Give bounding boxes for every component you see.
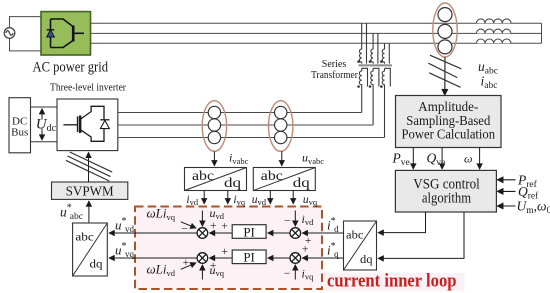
inductor L3 on phase C: [477, 39, 511, 43]
svg-text:AC power grid: AC power grid: [33, 60, 109, 76]
series transformer T1 secondary winding: [359, 68, 367, 112]
abc/dq transform block 1: [185, 168, 247, 191]
wire P_ref input: [497, 179, 515, 181]
svg-text:abc: abc: [261, 169, 283, 184]
svg-text:Um,ω0: Um,ω0: [517, 199, 550, 217]
transformer core bar: [359, 64, 393, 66]
wire DC bus to inverter bottom: [31, 141, 58, 143]
T1 secondary polarity dot: [357, 85, 360, 88]
wire u_vd drop into box: [269, 191, 271, 204]
SVPWM block: [52, 182, 128, 199]
AC source V1: [4, 28, 15, 39]
summer D: [290, 253, 301, 264]
wire dq/abc block4 to SVPWM: [88, 201, 90, 223]
inverter output line phase b: [118, 124, 373, 126]
wire block3 to summer D (i*_q): [302, 257, 343, 259]
gate slash 1: [70, 152, 113, 172]
inverter output line phase a: [118, 112, 362, 114]
svg-text:−: −: [284, 268, 291, 280]
voltage sensor ellipse 2: [269, 101, 293, 152]
wire SVPWM to inverter: [88, 153, 90, 183]
wire PI2 to summer B: [210, 257, 233, 259]
grid sensor coil b: [438, 24, 452, 38]
wire summer A to block4 (u*_vd): [109, 232, 197, 234]
T2 primary polarity dot: [369, 60, 372, 63]
svg-text:+: +: [221, 221, 228, 233]
svg-text:+: +: [302, 243, 309, 255]
svg-text:algorithm: algorithm: [422, 190, 471, 206]
grid measurement sensor ellipse: [433, 3, 457, 57]
wire u_vd feedforward to summer A: [201, 211, 203, 227]
svg-text:−: −: [284, 215, 291, 227]
series transformer T2 primary winding: [371, 33, 378, 63]
current inner loop dashed box: [135, 207, 322, 290]
svg-text:Three-level inverter: Three-level inverter: [50, 82, 126, 93]
bus line phase A: [91, 22, 542, 24]
svg-text:ω: ω: [464, 152, 472, 166]
wire summer C to PI1: [268, 232, 290, 234]
wire DC bus to inverter top: [31, 106, 58, 108]
tap slash 1: [430, 55, 461, 69]
svg-text:Sampling-Based: Sampling-Based: [406, 113, 490, 128]
wire omegaLivd to summer B: [181, 263, 196, 269]
wire i_vd feedback into summer C: [294, 211, 296, 227]
svg-text:dq: dq: [90, 257, 103, 271]
wire i_vd drop into box: [203, 191, 205, 204]
svg-text:+: +: [210, 220, 217, 232]
measurement tap wire to power calculation: [444, 57, 446, 95]
wire summer B to block4 (u*_vq): [109, 257, 197, 259]
svg-text:SVPWM: SVPWM: [66, 185, 115, 200]
wire VSG to block3 q-axis: [378, 212, 464, 258]
svg-text:−: −: [181, 224, 188, 236]
dq/abc transform block 4: [73, 223, 108, 276]
svg-text:abc: abc: [75, 229, 93, 243]
grid sensor coil a: [438, 8, 452, 22]
wire i_vq feedback into summer D: [294, 265, 296, 280]
wire PI1 to summer A: [210, 232, 233, 234]
wire Qve to VSG: [441, 148, 443, 169]
svg-text:Bus: Bus: [11, 127, 28, 139]
U_dc measurement double arrow: [41, 109, 43, 120]
VSG control algorithm block: [395, 170, 496, 212]
sensor1 coil b: [208, 119, 220, 131]
wire VSG to block3 d-axis: [378, 212, 425, 233]
grid converter internal circuit: [51, 19, 85, 48]
wire Um omega0 input: [497, 205, 515, 207]
T1 primary polarity dot: [357, 60, 360, 63]
sensor2 coil a: [275, 106, 287, 118]
sensor2 coil c: [275, 131, 287, 143]
inductor L1 on phase A: [477, 19, 511, 23]
svg-text:PI: PI: [243, 224, 255, 239]
bus line phase B: [91, 32, 542, 34]
summer B: [197, 253, 208, 264]
abc/dq transform block 2: [253, 168, 315, 191]
gate slash 2: [68, 156, 111, 177]
sensor1 coil a: [208, 106, 220, 118]
bus line phase C: [91, 42, 542, 44]
dq/abc transform block 3: [344, 221, 377, 270]
PI controller 1: [232, 224, 266, 239]
wire sensor1 to abc/dq block1: [213, 151, 215, 165]
svg-text:PI: PI: [243, 250, 255, 265]
svg-text:abc: abc: [192, 169, 214, 184]
series transformer T3 primary winding: [382, 43, 389, 63]
current sensor ellipse 1: [202, 101, 226, 152]
series transformer T3 secondary winding: [382, 68, 390, 137]
wire u_vq drop into box: [292, 191, 294, 204]
wire u_vq feedforward to summer B: [201, 265, 203, 280]
three-level inverter block: [57, 99, 118, 151]
summer C: [290, 228, 301, 239]
wire AC source to grid converter bottom: [10, 38, 42, 51]
wire summer D to PI2: [268, 257, 290, 259]
svg-text:Series: Series: [322, 59, 347, 70]
svg-text:dq: dq: [224, 176, 241, 191]
svg-text:Amplitude-: Amplitude-: [418, 99, 478, 114]
svg-text:Transformer: Transformer: [311, 70, 358, 81]
inverter freewheel diode: [100, 119, 109, 121]
series transformer T1 primary winding: [360, 23, 367, 63]
wire Pve to VSG: [412, 148, 414, 169]
svg-text:dq: dq: [360, 252, 373, 266]
T3 secondary polarity dot: [380, 85, 383, 88]
diode D1 (blue) inside grid converter: [47, 30, 55, 37]
svg-text:Power Calculation: Power Calculation: [402, 127, 496, 142]
summer A: [197, 228, 208, 239]
inverter IGBT symbol: [63, 106, 104, 141]
wire block3 to summer C (i*_d): [302, 232, 343, 234]
pink halo behind caption: [324, 273, 465, 291]
svg-text:+: +: [222, 246, 229, 258]
svg-text:current inner loop: current inner loop: [327, 270, 457, 291]
T2 secondary polarity dot: [369, 85, 372, 88]
wire sensor2 to abc/dq block2: [281, 151, 283, 165]
tap slash 3: [429, 73, 460, 88]
svg-text:dq: dq: [293, 176, 310, 191]
wire Q_ref input: [497, 190, 515, 192]
wire AC source to grid converter top: [10, 17, 42, 28]
Amplitude-Sampling-Based Power Calculation block: [396, 96, 502, 148]
wire omegaLivq to summer A: [181, 222, 196, 228]
PI controller 2: [232, 250, 266, 265]
tap slash 2: [428, 63, 457, 77]
sensor2 coil b: [275, 119, 287, 131]
inverter output line phase c: [118, 137, 385, 139]
gate slash 3: [66, 160, 109, 181]
grid-side converter block (green): [41, 12, 91, 55]
sensor1 coil c: [208, 131, 220, 143]
T3 primary polarity dot: [380, 60, 383, 63]
wire omega to VSG: [479, 148, 481, 169]
inductor L2 on phase B: [477, 29, 511, 33]
wire i_vq drop into box: [227, 191, 229, 204]
series transformer T2 secondary winding: [371, 68, 379, 125]
right bus termination bar: [541, 23, 543, 43]
svg-text:abc: abc: [346, 228, 363, 242]
grid sensor coil c: [438, 40, 452, 54]
svg-text:+: +: [210, 260, 217, 272]
svg-text:+: +: [183, 257, 190, 269]
DC Bus block: [9, 98, 31, 153]
